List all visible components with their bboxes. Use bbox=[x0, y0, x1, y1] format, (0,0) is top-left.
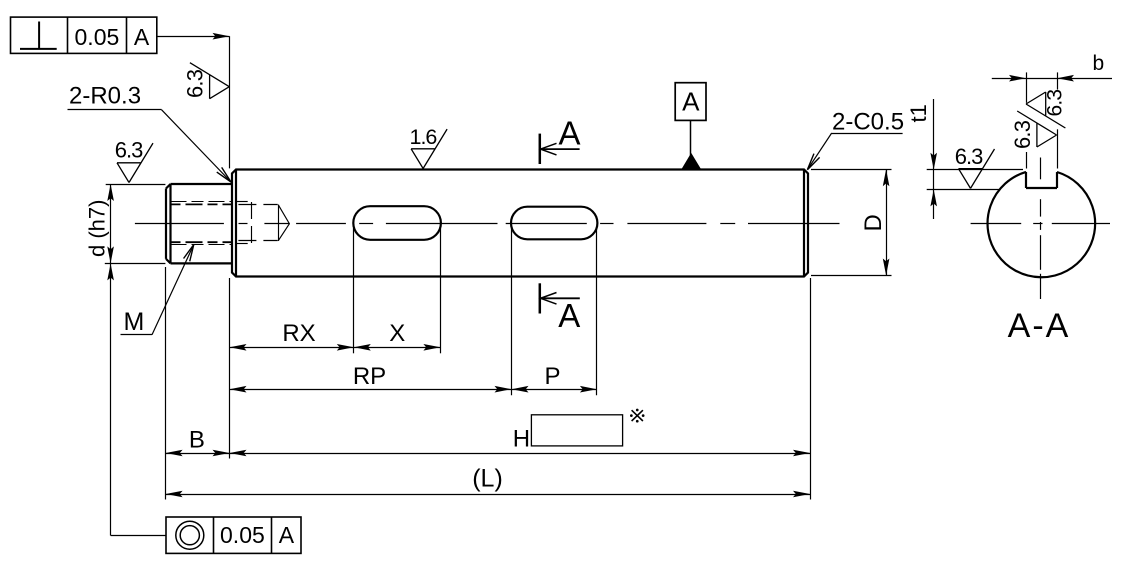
svg-text:A: A bbox=[279, 522, 295, 548]
svg-text:b: b bbox=[1093, 52, 1105, 75]
svg-text:1.6: 1.6 bbox=[410, 125, 438, 149]
svg-text:6.3: 6.3 bbox=[955, 144, 983, 169]
svg-text:0.05: 0.05 bbox=[220, 522, 265, 548]
svg-text:A: A bbox=[134, 24, 150, 50]
svg-text:6.3: 6.3 bbox=[115, 138, 143, 163]
svg-text:M: M bbox=[124, 308, 145, 336]
svg-text:RP: RP bbox=[353, 363, 386, 390]
svg-text:A: A bbox=[558, 297, 580, 334]
svg-text:A: A bbox=[558, 115, 580, 152]
svg-text:6.3: 6.3 bbox=[183, 69, 208, 98]
svg-text:6.3: 6.3 bbox=[1010, 120, 1035, 149]
svg-text:H: H bbox=[513, 426, 530, 453]
svg-text:2-R0.3: 2-R0.3 bbox=[69, 83, 141, 110]
svg-text:A: A bbox=[682, 87, 700, 117]
svg-text:D: D bbox=[860, 214, 887, 231]
svg-text:RX: RX bbox=[282, 320, 315, 347]
svg-text:d (h7): d (h7) bbox=[85, 200, 110, 257]
svg-text:A-A: A-A bbox=[1008, 307, 1071, 345]
svg-text:(L): (L) bbox=[472, 465, 503, 493]
svg-text:6.3: 6.3 bbox=[1044, 90, 1067, 117]
svg-text:0.05: 0.05 bbox=[75, 24, 120, 50]
svg-text:t1: t1 bbox=[906, 104, 931, 122]
svg-text:2-C0.5: 2-C0.5 bbox=[832, 109, 904, 136]
svg-text:B: B bbox=[189, 427, 205, 454]
svg-text:X: X bbox=[389, 320, 405, 347]
svg-text:P: P bbox=[544, 363, 560, 390]
